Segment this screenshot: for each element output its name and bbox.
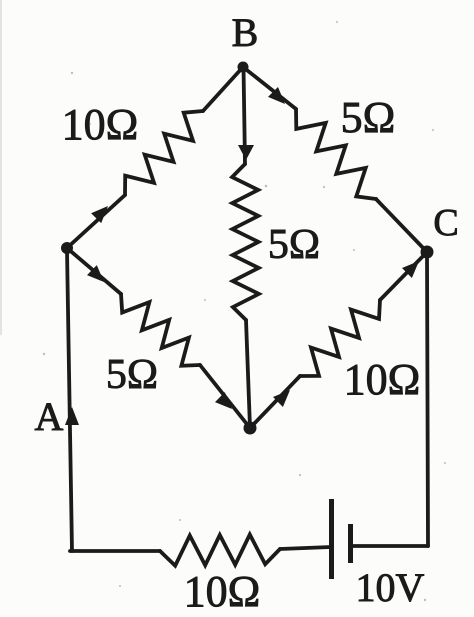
node B (238, 62, 249, 73)
resistor 5 ohm upper-right arm (296, 109, 376, 199)
arrow middle arm downward (238, 145, 254, 160)
svg-text:A: A (35, 394, 64, 439)
wire left vertical (node to bottom-left corner) (67, 250, 72, 551)
svg-text:10Ω: 10Ω (184, 567, 261, 616)
arrow lower-left arm near left node (87, 265, 104, 282)
wire B down to middle zigzag (244, 67, 246, 164)
svg-text:B: B (232, 10, 259, 55)
battery short plate (348, 524, 353, 563)
resistor 10 ohm upper-left arm (125, 111, 203, 195)
svg-text:10V: 10V (356, 565, 425, 610)
scan speckles (43, 21, 446, 601)
svg-text:5Ω: 5Ω (341, 93, 396, 142)
arrow upper-left arm toward B (91, 206, 108, 223)
node left (61, 242, 73, 254)
wire bottom-left to battery resistor (70, 549, 160, 553)
arrow lower-left arm near bottom node (215, 392, 232, 409)
arrow lower-right arm near bottom node (273, 390, 290, 407)
svg-text:C: C (433, 202, 458, 244)
node bottom (244, 422, 257, 435)
arrow upper-right arm toward C (268, 87, 285, 104)
wire zigzag to node C (376, 199, 427, 252)
wire bottom node to lower-right zigzag (250, 376, 300, 428)
wire middle zigzag to bottom node (246, 320, 250, 428)
svg-text:5Ω: 5Ω (268, 222, 320, 268)
svg-text:10Ω: 10Ω (344, 355, 421, 404)
scan edge artifact left (0, 0, 2, 335)
arrow on left wire at A pointing up (65, 407, 79, 425)
node C (421, 246, 434, 259)
resistor 10 ohm lower-right arm (300, 300, 380, 376)
resistor 5 ohm middle arm (232, 164, 259, 320)
wire zigzag to node C (380, 252, 427, 300)
wire left node to lower-left zigzag (67, 248, 121, 294)
resistor 10 ohm bottom (160, 535, 280, 566)
svg-text:5Ω: 5Ω (106, 352, 158, 398)
wire B to upper-right zigzag (243, 67, 296, 109)
wire B to upper-left zigzag (203, 67, 243, 111)
resistor 5 ohm lower-left arm (121, 294, 200, 366)
battery long plate (329, 499, 334, 579)
wire battery to bottom-right corner (351, 544, 428, 548)
wire zigzag to node A-left (67, 195, 125, 248)
wire zigzag to bottom node (200, 365, 250, 428)
wire right vertical (corner up to node C) (427, 254, 428, 546)
svg-text:10Ω: 10Ω (62, 100, 139, 149)
wire resistor to battery (280, 547, 331, 549)
arrow lower-right arm near C (402, 261, 419, 278)
